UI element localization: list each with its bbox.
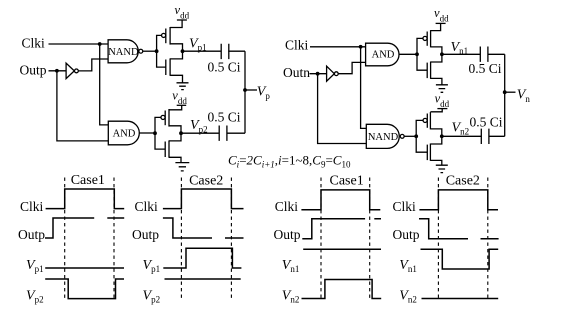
wire Outp to inverter <box>49 70 67 72</box>
waveform Outp <box>45 218 124 238</box>
svg-text:0.5 Ci: 0.5 Ci <box>208 110 241 125</box>
node junction Clki right <box>359 45 363 49</box>
node junction Outp <box>55 69 59 73</box>
ground 3 <box>436 85 448 93</box>
transistor M4 NMOS channel <box>168 140 170 157</box>
svg-text:Clki: Clki <box>275 199 299 214</box>
transistor M4 NMOS gate bar <box>164 142 166 158</box>
wire capacitor C3 to rail <box>488 53 505 55</box>
node output Vp1 <box>181 49 185 53</box>
wire inverter output to NAND input <box>78 59 108 71</box>
capacitor C4 plates <box>481 129 489 144</box>
capacitor C2 plates <box>219 126 227 141</box>
wire M6 drain to output node <box>431 54 442 62</box>
wire M7 drain to output node <box>430 129 441 136</box>
inverter U4 <box>327 66 335 81</box>
power vdd terminal 2 <box>177 104 187 106</box>
wire M1 source to vdd <box>170 20 182 28</box>
wire gate rail NMOS M6 <box>417 54 427 70</box>
inverter U1 <box>66 63 74 79</box>
NAND gate U6 <box>366 124 399 148</box>
wire output to capacitor C2 <box>181 132 219 134</box>
wire M8 source to ground <box>430 160 441 165</box>
waveform Clki <box>419 190 498 210</box>
wire Outp feedback to AND input <box>57 71 108 141</box>
wire M2 drain to output node <box>170 51 182 59</box>
capacitor C3 plates <box>480 47 488 62</box>
dashed marker line 1 <box>437 178 439 300</box>
wire gate rail PMOS <box>157 35 162 51</box>
AND gate U5 <box>366 43 399 66</box>
transistor M7 PMOS channel <box>429 112 431 129</box>
wire M7 source to vdd <box>430 109 442 112</box>
waveform Vn1 <box>421 249 499 269</box>
node junction Outn <box>316 72 320 76</box>
dashed marker line 1 <box>180 178 182 300</box>
wire M3 drain to output node <box>169 126 181 133</box>
waveform Clki <box>163 189 244 209</box>
svg-text:0.5 Ci: 0.5 Ci <box>469 61 502 76</box>
svg-text:AND: AND <box>113 129 136 140</box>
svg-text:Clki: Clki <box>135 199 159 214</box>
wire Outn to inverter <box>310 73 327 75</box>
dashed marker line 1 <box>64 178 66 300</box>
ground 4 <box>436 165 448 172</box>
wire gate rail NMOS <box>157 51 166 67</box>
transistor M3 PMOS gate bar <box>164 111 166 126</box>
transistor M2 NMOS gate bar <box>165 60 167 76</box>
wire M8 drain to output node <box>430 136 441 144</box>
svg-text:Ci=2Ci+1,i=1~8,C9=C10: Ci=2Ci+1,i=1~8,C9=C10 <box>228 153 351 170</box>
svg-text:Clki: Clki <box>22 36 46 51</box>
wire M2 source to ground <box>170 75 182 83</box>
wire NAND output <box>143 50 157 52</box>
svg-text:NAND: NAND <box>368 132 399 143</box>
wire M1 drain to output node <box>170 44 182 51</box>
node Vp <box>243 88 247 92</box>
transistor M8 NMOS channel <box>429 144 431 161</box>
wire gate rail PMOS M7 <box>416 120 423 136</box>
wire output to capacitor C4 <box>442 135 481 137</box>
wire Clki feedback to NAND input <box>361 47 367 129</box>
wire Outn feedback to NAND input <box>318 74 367 144</box>
node Vn <box>503 90 507 94</box>
waveform Outp <box>163 218 244 238</box>
transistor M1 PMOS gate bar <box>165 29 167 44</box>
node gate input of inverter M5/M6 <box>415 52 419 56</box>
svg-text:0.5 Ci: 0.5 Ci <box>208 59 241 74</box>
node output Vn2 <box>440 134 444 138</box>
wire output to capacitor C3 <box>442 53 480 55</box>
wire capacitor C2 to rail <box>227 132 245 134</box>
transistor M5 PMOS gate bar <box>426 32 428 46</box>
svg-text:Outp: Outp <box>274 227 301 242</box>
wire capacitor C1 to rail <box>228 50 245 52</box>
svg-text:Case2: Case2 <box>446 174 480 189</box>
node junction Clki <box>98 42 102 46</box>
node output Vn1 <box>440 52 444 56</box>
transistor M3 PMOS bubble <box>161 115 165 119</box>
transistor M5 PMOS channel <box>430 30 432 47</box>
wire M5 source to vdd <box>431 23 441 30</box>
waveform Outp <box>419 219 499 239</box>
svg-text:Outp: Outp <box>393 227 420 242</box>
wire Clki feedback to AND input <box>100 44 109 125</box>
svg-text:0.5 Ci: 0.5 Ci <box>470 115 503 130</box>
svg-text:Case2: Case2 <box>189 174 223 189</box>
transistor M6 NMOS gate bar <box>426 63 428 79</box>
wire M5 drain to output node <box>431 47 442 54</box>
waveform Clki <box>301 190 380 210</box>
wire output rail Vn <box>504 54 506 136</box>
transistor M2 NMOS channel <box>169 58 171 75</box>
dashed marker line 2 <box>113 178 115 300</box>
waveform Vn1 <box>303 248 381 250</box>
transistor M5 PMOS bubble <box>423 36 427 40</box>
wire capacitor C4 to rail <box>489 135 505 137</box>
dashed marker line 2 <box>487 178 489 300</box>
transistor M1 PMOS channel <box>169 27 171 45</box>
svg-text:Case1: Case1 <box>329 174 363 189</box>
wire AND output <box>139 132 155 134</box>
svg-text:Clki: Clki <box>285 38 309 53</box>
wire M3 source to vdd <box>169 105 182 110</box>
power vdd terminal <box>177 19 187 21</box>
wire M6 source to ground <box>431 78 442 84</box>
wire M4 drain to output node <box>169 133 181 141</box>
wire M4 source to ground <box>169 157 181 162</box>
ground 1 <box>177 83 189 90</box>
waveform Vp1 <box>163 248 241 268</box>
dashed marker line 2 <box>230 178 232 300</box>
wire Vn tap <box>505 91 516 93</box>
waveform Vp1 <box>45 267 124 269</box>
power vdd terminal 3 <box>436 22 446 24</box>
transistor M7 PMOS gate bar <box>426 114 428 128</box>
dashed marker line 1 <box>320 178 322 300</box>
ground 2 <box>175 163 189 171</box>
svg-text:Clki: Clki <box>20 199 44 214</box>
waveform Clki <box>46 189 125 209</box>
svg-text:NAND: NAND <box>108 47 139 58</box>
dashed marker line 2 <box>369 178 371 300</box>
wire AND output <box>399 53 417 55</box>
svg-text:Clki: Clki <box>393 199 417 214</box>
svg-text:Outp: Outp <box>132 227 159 242</box>
waveform Vn2 <box>422 298 499 300</box>
wire Clki to NAND <box>49 43 109 45</box>
transistor M1 PMOS bubble <box>162 33 166 37</box>
transistor M3 PMOS channel <box>168 109 170 127</box>
svg-text:Case1: Case1 <box>71 173 105 188</box>
svg-text:Outn: Outn <box>283 65 310 80</box>
wire gate rail PMOS M5 <box>417 38 423 54</box>
wire inverter output to AND input <box>338 62 365 73</box>
wire NAND output <box>404 135 416 137</box>
node gate input of inverter M7/M8 <box>414 134 418 138</box>
wire gate rail NMOS M8 <box>416 136 427 152</box>
wire gate rail PMOS M3 <box>155 117 161 133</box>
node gate input of inverter M3/M4 <box>153 131 157 135</box>
waveform Vp2 <box>165 278 241 280</box>
node gate input of inverter M1/M2 <box>155 49 159 53</box>
NAND gate U2 <box>108 40 138 63</box>
transistor M7 PMOS bubble <box>423 118 427 122</box>
power vdd terminal 4 <box>437 108 447 110</box>
waveform Outp <box>302 219 381 239</box>
wire output to capacitor C1 <box>183 50 221 52</box>
wire Vp tap <box>245 89 257 91</box>
svg-text:Outp: Outp <box>18 227 45 242</box>
svg-text:AND: AND <box>372 49 395 60</box>
node output Vp2 <box>179 131 183 135</box>
transistor M6 NMOS channel <box>430 62 432 79</box>
wire gate rail NMOS M4 <box>155 133 165 149</box>
wire output rail Vp <box>244 51 246 133</box>
wire Clki to AND <box>310 46 366 48</box>
transistor M8 NMOS gate bar <box>426 145 428 161</box>
waveform Vp2 <box>45 279 124 299</box>
capacitor C1 plates <box>221 44 229 59</box>
waveform Vn2 <box>302 280 382 299</box>
label AND inputs already wired; AND gate U3 <box>108 121 139 145</box>
svg-text:Outp: Outp <box>20 63 47 78</box>
